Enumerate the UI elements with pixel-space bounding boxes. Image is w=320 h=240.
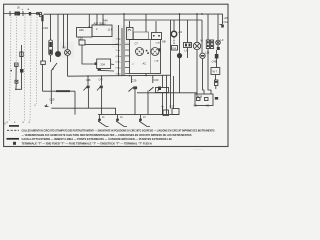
svg-text:A60: A60 bbox=[79, 28, 84, 32]
svg-text:C10: C10 bbox=[43, 26, 49, 30]
svg-text:C20: C20 bbox=[50, 98, 55, 102]
svg-text:C2B: C2B bbox=[156, 43, 161, 45]
svg-text:7 Ner: 7 Ner bbox=[116, 72, 122, 75]
svg-text:·········: ········· bbox=[193, 147, 202, 150]
svg-text:C7: C7 bbox=[135, 42, 139, 46]
svg-text:TERMINALE "T" — END FIXED "T": TERMINALE "T" — END FIXED "T" — FIXIE TE… bbox=[22, 142, 152, 146]
svg-text:2 Mgr: 2 Mgr bbox=[116, 43, 122, 46]
svg-text:►: ► bbox=[157, 90, 160, 93]
svg-text:L2B: L2B bbox=[155, 61, 159, 63]
svg-text:3 Gri: 3 Gri bbox=[116, 49, 121, 52]
svg-text:LA: LA bbox=[185, 49, 188, 53]
svg-text:— VERBINDUNGEN AUF GEDRUCKTE S: — VERBINDUNGEN AUF GEDRUCKTE SHALTUNG DE… bbox=[22, 133, 192, 137]
svg-text:LF: LF bbox=[221, 38, 224, 42]
svg-text:A49: A49 bbox=[103, 19, 108, 23]
svg-text:+: + bbox=[22, 7, 24, 11]
svg-text:11 E: 11 E bbox=[108, 28, 113, 32]
svg-text:5 Bia: 5 Bia bbox=[116, 62, 122, 64]
svg-text:234: 234 bbox=[101, 63, 106, 67]
svg-text:CAVALLOTTI ESTERNI — INNESTI L: CAVALLOTTI ESTERNI — INNESTI LINEA — PON… bbox=[22, 137, 172, 141]
svg-text:C48: C48 bbox=[86, 79, 91, 82]
svg-text:COLLEGAMENTI IN CIRCUITO STAMP: COLLEGAMENTI IN CIRCUITO STAMPATO DEI PO… bbox=[22, 128, 215, 132]
svg-text:C20: C20 bbox=[78, 37, 83, 41]
svg-text:6 Ros: 6 Ros bbox=[116, 68, 123, 70]
svg-text:JP: JP bbox=[15, 63, 18, 67]
svg-text:HB: HB bbox=[162, 40, 166, 44]
svg-text:N: N bbox=[4, 122, 6, 126]
svg-text:C37: C37 bbox=[170, 106, 175, 109]
svg-text:C30: C30 bbox=[154, 78, 159, 82]
svg-text:A28: A28 bbox=[198, 94, 203, 98]
svg-text:C11: C11 bbox=[224, 21, 229, 24]
svg-text:L1B: L1B bbox=[205, 52, 210, 55]
svg-text:C29: C29 bbox=[132, 79, 137, 83]
svg-text:1 Ngr: 1 Ngr bbox=[116, 37, 122, 40]
svg-text:C4B: C4B bbox=[212, 60, 217, 64]
svg-text:C47: C47 bbox=[99, 79, 104, 82]
svg-text:<: < bbox=[132, 62, 134, 66]
svg-text:+15: +15 bbox=[224, 17, 229, 20]
svg-text:AC: AC bbox=[143, 61, 147, 65]
svg-text:W 7: W 7 bbox=[213, 70, 218, 74]
svg-text:+31: +31 bbox=[178, 31, 183, 34]
svg-text:◄: ◄ bbox=[10, 69, 13, 73]
svg-text:4 Mar: 4 Mar bbox=[116, 55, 122, 58]
